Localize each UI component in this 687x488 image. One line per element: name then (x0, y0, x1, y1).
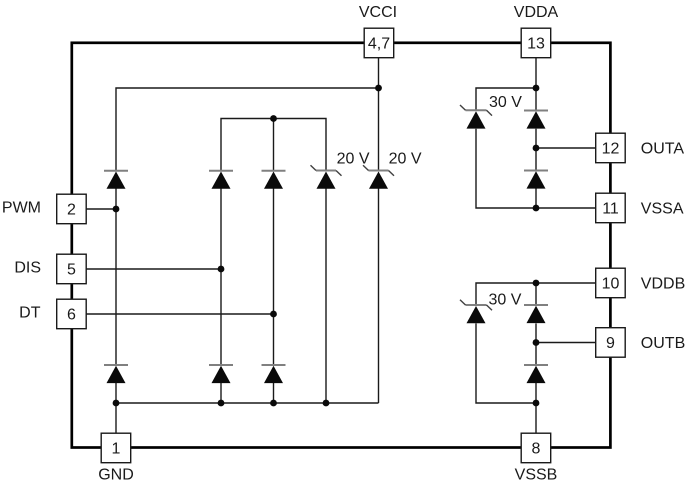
diode D10 (VDDA stack upper) (524, 111, 548, 129)
node OUTA (533, 145, 540, 152)
wire column C bottom (273, 383, 275, 403)
node VSSA (533, 205, 540, 212)
node bus-colB (218, 400, 225, 407)
pin VCCI 4,7 (364, 28, 394, 58)
node bus-colD (323, 400, 330, 407)
wire VSSB stub (535, 403, 537, 433)
node OUTB (533, 339, 540, 346)
wire VDDB loop left (476, 283, 536, 305)
svg-text:30 V: 30 V (489, 94, 522, 111)
wire diode G1 to OUTA node (535, 129, 537, 171)
wire VDDB node (536, 282, 596, 284)
diode D11 (VDDA stack lower) (524, 171, 548, 189)
svg-text:10: 10 (602, 275, 620, 292)
svg-text:VSSB: VSSB (515, 467, 558, 484)
pin DT 6 (57, 299, 86, 329)
pin GND 1 (101, 433, 131, 463)
diode D14 (VDDB stack lower) (524, 365, 548, 383)
zener D4 20V (col D top) (311, 165, 342, 189)
svg-text:OUTB: OUTB (641, 335, 685, 352)
svg-text:20 V: 20 V (389, 151, 422, 168)
pin VDDB 10 (596, 268, 626, 298)
zener D5 20V (col E top) (363, 165, 394, 189)
node bus-colC (270, 400, 277, 407)
node DT-colC (270, 311, 277, 318)
wire column B middle (220, 189, 222, 366)
wire diode I1 down (535, 283, 537, 305)
svg-text:8: 8 (532, 440, 541, 457)
wire column E VCCI down (378, 58, 380, 171)
svg-text:1: 1 (112, 440, 121, 457)
svg-text:4,7: 4,7 (368, 35, 390, 52)
zener D12 30V (VDDB block) (460, 300, 492, 324)
svg-text:6: 6 (67, 306, 76, 323)
diode D1 (col A top) (104, 171, 128, 189)
wire DIS to column B (86, 268, 221, 270)
pin OUTB 9 (596, 328, 626, 358)
pin VSSA 11 (596, 193, 626, 223)
wire VDDA loop left (476, 88, 536, 110)
svg-text:2: 2 (67, 201, 76, 218)
svg-text:11: 11 (602, 200, 619, 217)
svg-text:12: 12 (602, 140, 620, 157)
svg-text:GND: GND (98, 467, 134, 484)
svg-text:OUTA: OUTA (641, 141, 685, 158)
wire VSSA (536, 207, 596, 209)
svg-text:VSSA: VSSA (641, 201, 684, 218)
node bus-colA (113, 400, 120, 407)
svg-text:30 V: 30 V (489, 292, 522, 309)
zener D9 30V (VDDA block) (460, 105, 492, 129)
svg-text:5: 5 (67, 261, 76, 278)
node DIS-colB (218, 266, 225, 273)
wire diode I2 to VSSB node (535, 383, 537, 403)
wire column E down (378, 189, 380, 404)
svg-text:VCCI: VCCI (359, 4, 397, 21)
pin DIS 5 (57, 254, 86, 284)
diode D13 (VDDB stack upper) (524, 305, 548, 323)
node VDDB (533, 280, 540, 287)
diode D6 (col A bottom) (104, 365, 128, 383)
wire column A middle (115, 189, 117, 366)
wire column A bottom (115, 383, 117, 433)
svg-text:20 V: 20 V (337, 151, 370, 168)
wire diode G2 to VSSA node (535, 189, 537, 209)
svg-text:13: 13 (527, 35, 545, 52)
wire column B bottom (220, 383, 222, 403)
pin VSSB 8 (521, 433, 551, 463)
pin VDDA 13 (521, 28, 551, 58)
diode D8 (col C bottom) (262, 365, 286, 383)
wire rail2 (221, 119, 326, 171)
diode D2 (col B top) (209, 171, 233, 189)
wire rail1 top (116, 88, 379, 171)
wire diode I1 to OUTB node (535, 323, 537, 365)
svg-text:PWM: PWM (2, 200, 41, 217)
wire column D down (325, 189, 327, 404)
wire ground bus (116, 402, 379, 404)
node rail2-colC (270, 115, 277, 122)
wire zener H bottom to VSSB node (476, 323, 536, 403)
node PWM-colA (113, 206, 120, 213)
wire column C middle (273, 189, 275, 366)
svg-text:VDDA: VDDA (514, 4, 559, 21)
diode D3 (col C top) (262, 171, 286, 189)
svg-text:DT: DT (19, 304, 41, 321)
wire column C top (273, 119, 275, 171)
svg-text:DIS: DIS (14, 260, 41, 277)
svg-text:9: 9 (606, 335, 615, 352)
wire DT to column C (86, 313, 273, 315)
diode D7 (col B bottom) (209, 365, 233, 383)
node VSSB (533, 400, 540, 407)
svg-text:VDDB: VDDB (641, 276, 685, 293)
wire zener F bottom to VSSA node (476, 129, 536, 208)
node rail1-colE (375, 85, 382, 92)
wire PWM to column A (86, 208, 116, 210)
pin OUTA 12 (596, 133, 626, 163)
node VDDA (533, 85, 540, 92)
IC boundary (72, 43, 611, 448)
pin PWM 2 (57, 194, 86, 224)
wire OUTB (536, 342, 596, 344)
wire OUTA (536, 147, 596, 149)
wire VDDA stub (535, 58, 537, 111)
